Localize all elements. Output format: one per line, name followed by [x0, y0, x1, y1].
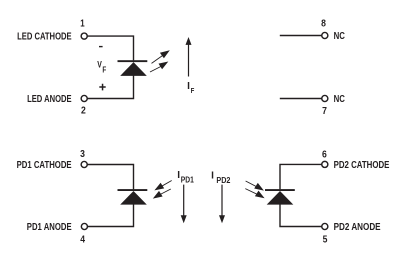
svg-text:2: 2	[81, 106, 86, 117]
LED emission arrow lower	[150, 62, 168, 73]
pin 4 terminal circle	[81, 223, 87, 229]
PD1 incident light arrow lower	[153, 189, 171, 199]
wire pin 8 NC stub	[280, 35, 322, 37]
svg-text:PD1 CATHODE: PD1 CATHODE	[17, 160, 72, 171]
pin 8 terminal circle	[322, 32, 328, 38]
svg-text:7: 7	[322, 106, 327, 117]
pin 5 terminal circle	[322, 223, 328, 229]
photodiode PD1 triangle	[120, 191, 147, 205]
svg-text:PD2 ANODE: PD2 ANODE	[334, 222, 381, 233]
current IPD1 arrow	[181, 185, 187, 224]
plus sign	[99, 84, 105, 91]
svg-text:F: F	[102, 65, 106, 74]
photodiode PD1 cathode bar	[118, 189, 148, 191]
pin 2 terminal circle	[81, 95, 87, 101]
wire LED anode to pin 2	[88, 76, 134, 99]
svg-text:LED ANODE: LED ANODE	[27, 94, 72, 105]
wire pin 3 to PD1 cathode bar	[88, 165, 134, 190]
minus sign	[99, 46, 103, 47]
PD2 incident light arrow lower	[245, 189, 264, 199]
pin 6 terminal circle	[322, 161, 328, 167]
wire pin 7 NC stub	[280, 98, 322, 100]
svg-text:3: 3	[80, 149, 85, 160]
LED D1 cathode bar	[118, 60, 148, 62]
wire pin1 to LED cathode bar	[88, 36, 134, 60]
svg-text:5: 5	[323, 234, 328, 245]
pin 7 terminal circle	[322, 95, 328, 101]
svg-text:NC: NC	[334, 31, 346, 42]
LED D1 triangle	[120, 62, 147, 76]
pin 3 terminal circle	[81, 161, 87, 167]
current IPD2 arrow	[219, 185, 225, 224]
PD1 incident light arrow upper	[154, 181, 171, 191]
svg-text:NC: NC	[334, 94, 346, 105]
svg-text:V: V	[97, 60, 102, 70]
wire pin 6 to PD2 cathode bar	[280, 164, 322, 189]
svg-text:I: I	[211, 170, 214, 181]
PD2 incident light arrow upper	[246, 181, 264, 191]
svg-text:6: 6	[322, 150, 327, 161]
svg-text:LED CATHODE: LED CATHODE	[17, 32, 72, 43]
svg-text:F: F	[191, 86, 195, 95]
svg-text:PD2 CATHODE: PD2 CATHODE	[334, 160, 390, 171]
svg-text:8: 8	[321, 19, 326, 30]
photodiode PD2 triangle	[267, 191, 294, 205]
wire PD2 anode to pin 5	[280, 204, 322, 226]
photodiode PD2 cathode bar	[265, 189, 295, 191]
current IF arrow	[186, 37, 192, 77]
LED emission arrow upper	[152, 50, 170, 63]
svg-text:4: 4	[80, 234, 85, 245]
svg-text:PD1: PD1	[181, 176, 194, 185]
svg-text:PD1 ANODE: PD1 ANODE	[27, 222, 72, 233]
svg-text:PD2: PD2	[216, 176, 230, 185]
svg-text:1: 1	[80, 19, 85, 30]
wire PD1 anode to pin 4	[88, 204, 134, 226]
pin 1 terminal circle	[81, 33, 87, 39]
